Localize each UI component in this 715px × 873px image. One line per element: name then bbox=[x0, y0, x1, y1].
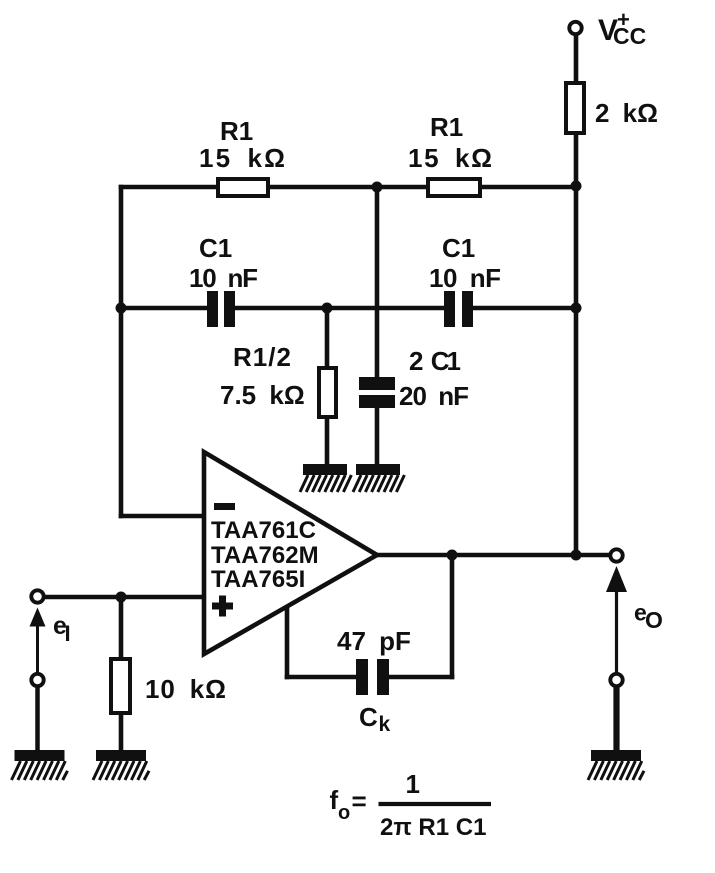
svg-text:o: o bbox=[338, 802, 350, 824]
svg-text:TAA765I: TAA765I bbox=[211, 566, 305, 593]
svg-text:1: 1 bbox=[406, 769, 420, 799]
svg-text:47 pF: 47 pF bbox=[337, 626, 411, 656]
svg-text:TAA761C: TAA761C bbox=[211, 517, 316, 544]
svg-text:C1: C1 bbox=[442, 233, 475, 263]
svg-text:O: O bbox=[645, 607, 663, 633]
svg-text:k: k bbox=[379, 713, 391, 736]
svg-text:20 nF: 20 nF bbox=[399, 381, 469, 411]
svg-text:R1: R1 bbox=[220, 116, 253, 146]
svg-text:C1: C1 bbox=[199, 233, 232, 263]
svg-text:R1/2: R1/2 bbox=[233, 342, 291, 372]
svg-text:2 C1: 2 C1 bbox=[409, 346, 461, 376]
svg-text:15 kΩ: 15 kΩ bbox=[408, 143, 492, 173]
svg-text:CC: CC bbox=[613, 23, 646, 49]
svg-text:10 kΩ: 10 kΩ bbox=[145, 674, 226, 704]
svg-text:15 kΩ: 15 kΩ bbox=[199, 143, 285, 173]
svg-text:10 nF: 10 nF bbox=[429, 263, 501, 293]
svg-text:10 nF: 10 nF bbox=[189, 263, 258, 293]
svg-text:2π R1 C1: 2π R1 C1 bbox=[380, 814, 486, 841]
svg-text:I: I bbox=[65, 621, 71, 646]
svg-text:=: = bbox=[352, 786, 367, 816]
svg-text:7.5 kΩ: 7.5 kΩ bbox=[220, 380, 305, 410]
svg-text:2 kΩ: 2 kΩ bbox=[595, 98, 658, 128]
svg-text:R1: R1 bbox=[430, 112, 463, 142]
svg-text:TAA762M: TAA762M bbox=[211, 542, 319, 569]
svg-text:C: C bbox=[359, 702, 378, 732]
